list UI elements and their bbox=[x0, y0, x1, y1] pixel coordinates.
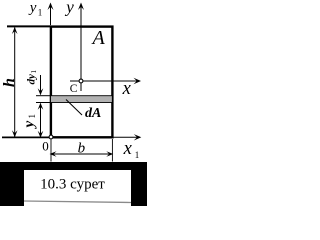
svg-text:0: 0 bbox=[42, 138, 49, 153]
svg-text:A: A bbox=[91, 27, 106, 49]
origin circle 0 bbox=[49, 135, 53, 139]
gray strip dA bbox=[51, 96, 113, 103]
dimension b line bbox=[50, 151, 114, 157]
label y1 left bbox=[22, 114, 38, 130]
label y1 top bbox=[28, 0, 43, 18]
svg-text:x: x bbox=[122, 79, 132, 99]
svg-text:dA: dA bbox=[85, 106, 101, 121]
strip top extension line bbox=[36, 95, 51, 97]
svg-text:y: y bbox=[22, 121, 38, 130]
y1 axis bbox=[48, 3, 54, 26]
svg-text:1: 1 bbox=[30, 70, 38, 74]
caption box bottom border bbox=[24, 201, 131, 203]
label dy1 bbox=[25, 70, 38, 85]
x axis bbox=[70, 78, 141, 84]
x1 axis bbox=[113, 134, 141, 140]
white caption box bbox=[24, 170, 131, 206]
svg-text:dy: dy bbox=[25, 74, 37, 85]
centroid C circle bbox=[79, 79, 83, 83]
strip bottom extension line bbox=[36, 102, 51, 104]
dimension y1 line bbox=[38, 103, 44, 138]
dimension h line bbox=[12, 27, 18, 137]
y axis bbox=[78, 3, 84, 92]
dimension dy1 arrow bbox=[38, 75, 44, 95]
rectangle area A outline bbox=[51, 27, 113, 138]
svg-text:10.3 сурет: 10.3 сурет bbox=[40, 177, 105, 193]
label x1 bbox=[123, 139, 140, 160]
bottom extension line bbox=[2, 136, 51, 138]
svg-text:x: x bbox=[123, 139, 133, 159]
dA leader line bbox=[66, 100, 82, 116]
svg-text:h: h bbox=[1, 78, 18, 87]
svg-text:C: C bbox=[70, 83, 78, 95]
top extension line bbox=[7, 25, 51, 27]
b dimension extension line right bbox=[111, 139, 113, 162]
svg-text:b: b bbox=[78, 140, 86, 156]
svg-text:y: y bbox=[64, 0, 74, 17]
black highlight strip bbox=[0, 162, 147, 206]
svg-text:1: 1 bbox=[135, 150, 140, 160]
svg-text:1: 1 bbox=[27, 114, 37, 119]
b dimension extension line left bbox=[50, 140, 52, 162]
svg-text:1: 1 bbox=[38, 8, 43, 18]
label h bbox=[1, 78, 18, 87]
svg-text:y: y bbox=[28, 0, 37, 16]
